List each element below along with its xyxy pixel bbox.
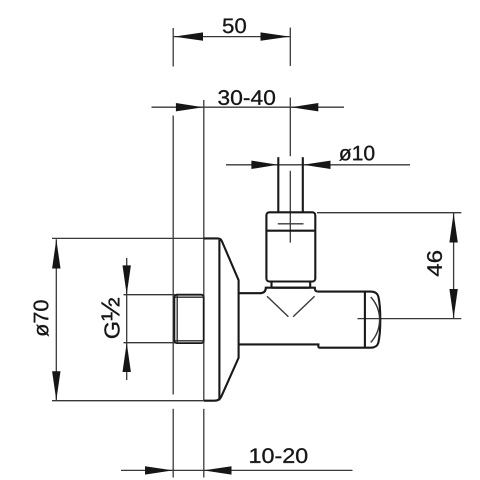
arrowheads G1/2 (123, 265, 131, 372)
dimension line 30-40 (152, 106, 345, 108)
valve body top shoulder (239, 288, 318, 294)
outlet pipe (horizontal) (318, 292, 381, 348)
label diameter 70 (rotated) (34, 300, 49, 336)
arrowheads 46 (449, 213, 457, 318)
label 46 (rotated) (427, 251, 442, 276)
dimension line 50 (173, 36, 290, 38)
vertical centerline of pipe (278, 28, 304, 243)
arrowheads diameter 10 (251, 161, 330, 169)
nipple thread inner lines (175, 295, 204, 342)
label G1/2 (rotated) (102, 298, 120, 338)
valve body bottom edge with step (239, 344, 319, 347)
gland band below bonnet (272, 282, 311, 288)
dimension line 10-20 (121, 469, 353, 471)
outlet cap line (364, 292, 366, 348)
outlet end face arc (371, 297, 380, 342)
supply pipe diameter 10 (278, 157, 303, 212)
label 30-40 (218, 90, 275, 105)
chamfer V lines inside body (267, 296, 315, 317)
bonnet nut line (266, 230, 315, 232)
arrowheads diameter 70 (52, 239, 60, 400)
flange plate edge line (218, 240, 220, 400)
label 50 (223, 18, 246, 33)
label 10-20 (250, 448, 307, 463)
label diameter 10 (339, 146, 374, 161)
dimension line diameter 10 (226, 164, 410, 166)
dimension line G1/2 (124, 258, 176, 380)
dimension line 46 (317, 213, 461, 319)
wall flange cone outline (204, 238, 239, 400)
wall line finished (right) (203, 100, 205, 478)
arrowheads 30-40 (176, 103, 318, 111)
arrowheads 50 (174, 32, 290, 40)
wall line rough (left) (172, 28, 174, 478)
threaded nipple G1/2 (174, 295, 203, 343)
arrowheads 10-20 (145, 466, 232, 474)
dimension line diameter 70 (52, 238, 204, 400)
valve bonnet (compression fitting body) (266, 212, 315, 281)
